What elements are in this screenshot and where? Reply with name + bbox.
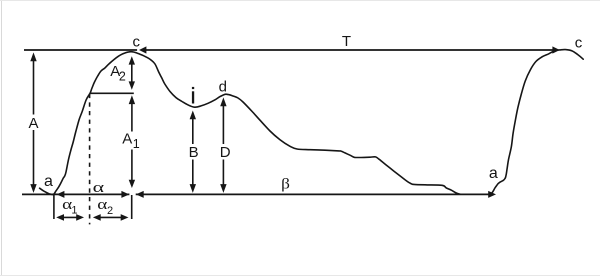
frame border left bbox=[1, 0, 3, 276]
T arrow line bbox=[146, 49, 553, 51]
svg-text:1: 1 bbox=[71, 205, 77, 217]
svg-text:a: a bbox=[44, 173, 53, 190]
frame border bottom bbox=[0, 275, 600, 276]
svg-text:D: D bbox=[220, 144, 231, 161]
svg-text:α: α bbox=[93, 180, 105, 196]
svg-text:c: c bbox=[132, 33, 140, 50]
alpha2 double arrow bbox=[97, 216, 124, 218]
beta right arrowhead (baseline end) bbox=[488, 191, 496, 198]
T left arrowhead bbox=[139, 46, 146, 53]
alpha1 double arrow bbox=[61, 216, 80, 218]
label i bbox=[192, 87, 194, 89]
waveform pulse 2 bbox=[490, 50, 583, 195]
A2 measure arrow bbox=[131, 60, 133, 86]
svg-text:A: A bbox=[122, 131, 132, 148]
A1 measure arrow bbox=[131, 100, 133, 182]
B measure arrow bbox=[192, 115, 194, 189]
svg-text:β: β bbox=[281, 176, 290, 192]
svg-text:α: α bbox=[97, 197, 107, 213]
svg-text:1: 1 bbox=[133, 137, 140, 151]
tick at alpha end bbox=[131, 195, 133, 219]
baseline bbox=[22, 193, 129, 195]
tick at a bbox=[53, 195, 55, 219]
svg-text:B: B bbox=[189, 144, 199, 161]
label A1 bbox=[121, 132, 141, 150]
A measure arrow bbox=[33, 57, 35, 189]
svg-text:a: a bbox=[489, 165, 498, 182]
shoulder line bbox=[90, 92, 134, 94]
svg-text:T: T bbox=[342, 33, 351, 50]
alpha right arrowhead on baseline bbox=[121, 191, 129, 198]
T right arrowhead bbox=[552, 46, 559, 53]
svg-text:c: c bbox=[575, 34, 583, 51]
T reference line left segment bbox=[24, 49, 137, 51]
svg-text:2: 2 bbox=[107, 205, 113, 217]
svg-text:d: d bbox=[219, 78, 227, 95]
svg-text:2: 2 bbox=[119, 69, 126, 83]
label A bbox=[27, 115, 41, 131]
label B bbox=[186, 144, 200, 160]
D measure arrow bbox=[222, 102, 224, 189]
dashed divider bbox=[89, 94, 91, 225]
label D bbox=[217, 144, 233, 160]
svg-text:A: A bbox=[28, 115, 38, 132]
beta left arrowhead bbox=[136, 191, 144, 198]
alpha left arrowhead on baseline bbox=[57, 191, 65, 198]
frame border top bbox=[0, 0, 600, 2]
waveform pulse 1 bbox=[40, 52, 460, 195]
